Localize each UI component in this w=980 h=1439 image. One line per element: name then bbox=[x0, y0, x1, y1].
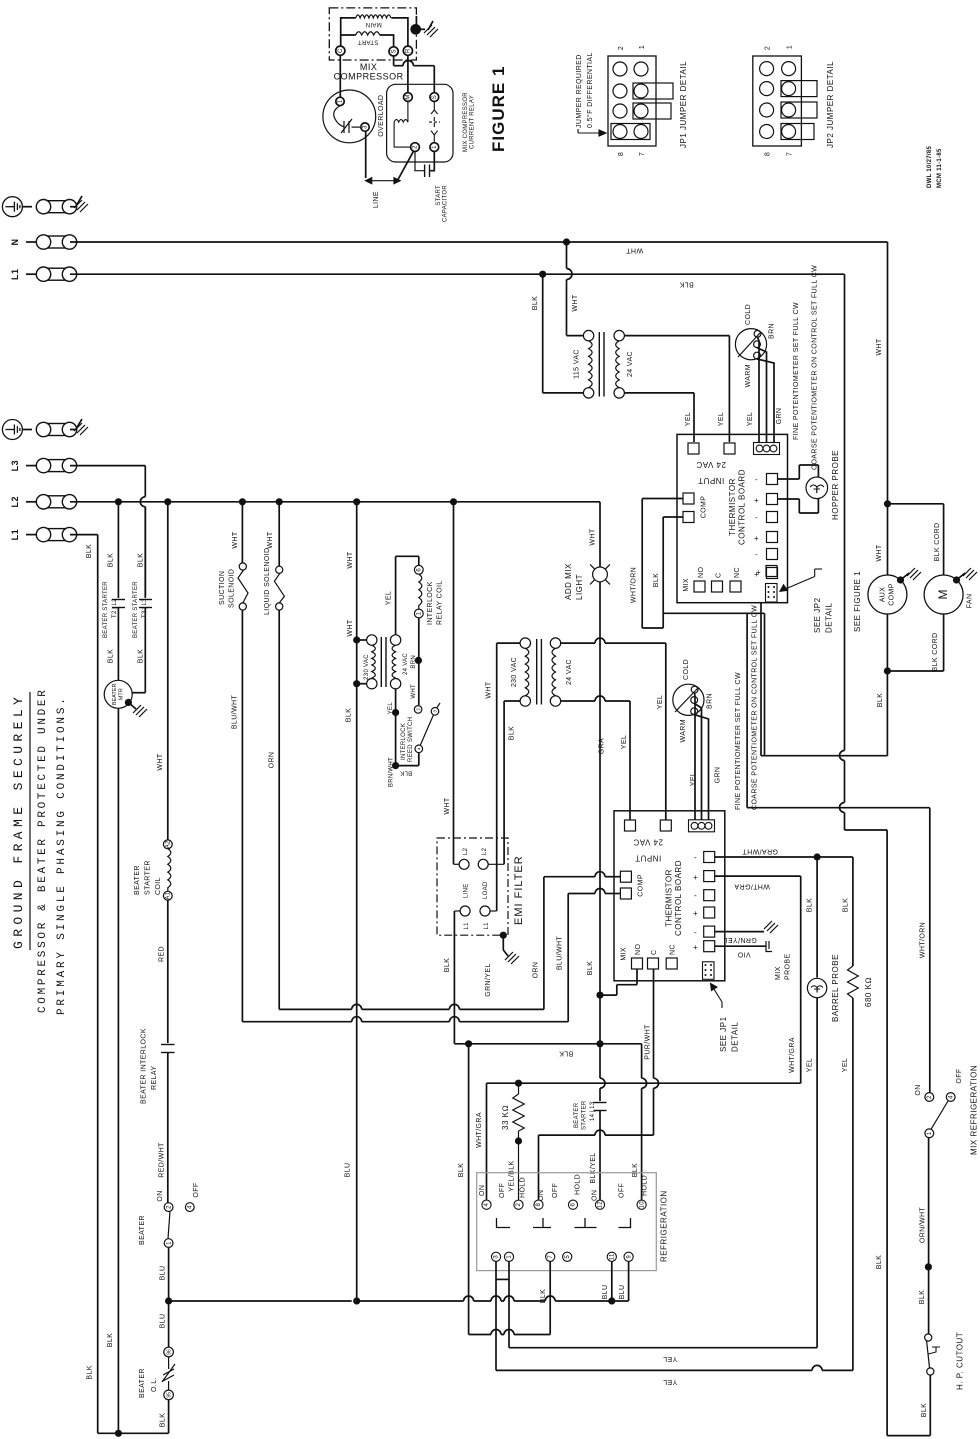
svg-text:INTERLOCK: INTERLOCK bbox=[401, 723, 407, 760]
svg-text:START: START bbox=[358, 39, 379, 45]
svg-text:SEE FIGURE 1: SEE FIGURE 1 bbox=[853, 571, 862, 632]
svg-text:MIX: MIX bbox=[360, 62, 378, 72]
wire WHT/ORN from board1 comp pin1 bbox=[642, 499, 683, 629]
svg-text:GRN: GRN bbox=[715, 767, 722, 784]
lamp ADD MIX LIGHT bbox=[590, 564, 610, 584]
svg-text:COMP: COMP bbox=[638, 874, 645, 897]
svg-text:BLK: BLK bbox=[107, 1333, 114, 1347]
node BLK bus junctions bbox=[465, 992, 604, 1048]
wire T3 primary bottom to EMI load bbox=[504, 701, 520, 864]
svg-text:NO: NO bbox=[698, 567, 705, 578]
svg-text:BLK: BLK bbox=[843, 898, 850, 912]
contact BEATER STARTER T3 L3 bbox=[139, 600, 152, 608]
LINE double arrow bbox=[366, 178, 400, 184]
svg-text:1: 1 bbox=[639, 45, 646, 49]
wire BLK to 680K resistor bbox=[852, 857, 854, 966]
svg-text:BLK: BLK bbox=[444, 958, 451, 972]
EMI L1 load terminal bbox=[480, 906, 497, 916]
terminal R bbox=[403, 46, 412, 55]
refrigeration switch block outline bbox=[477, 1173, 657, 1271]
svg-text:9: 9 bbox=[626, 1255, 632, 1259]
svg-text:HOPPER PROBE: HOPPER PROBE bbox=[831, 450, 840, 520]
svg-text:+: + bbox=[693, 909, 698, 918]
svg-text:2: 2 bbox=[927, 1095, 933, 1099]
revision text DWL MCM bbox=[927, 145, 943, 188]
relay enclosure rounded box bbox=[387, 84, 453, 162]
EMI LINE LOAD labels bbox=[464, 881, 490, 899]
svg-text:-: - bbox=[755, 475, 758, 484]
svg-text:BLK: BLK bbox=[876, 1255, 883, 1269]
svg-text:ON: ON bbox=[592, 1190, 599, 1201]
svg-text:BLK: BLK bbox=[807, 898, 814, 912]
svg-text:1: 1 bbox=[927, 1131, 933, 1135]
svg-text:11: 11 bbox=[610, 1253, 616, 1260]
svg-text:THERMISTOR: THERMISTOR bbox=[665, 869, 674, 927]
fuse L1 second bbox=[26, 527, 77, 541]
label SEE JP2 DETAIL bbox=[813, 597, 834, 633]
label BEATER INTERLOCK RELAY bbox=[141, 1028, 159, 1104]
svg-text:SUCTION: SUCTION bbox=[219, 571, 226, 605]
relay terminal 2 bbox=[411, 143, 420, 152]
svg-text:BLK: BLK bbox=[138, 649, 145, 663]
board1 right pins with polarity labels bbox=[754, 474, 778, 580]
wire T3 primary top to EMI load bbox=[497, 643, 520, 911]
svg-text:WHT: WHT bbox=[347, 619, 354, 636]
svg-text:JP1 JUMPER DETAIL: JP1 JUMPER DETAIL bbox=[679, 61, 688, 148]
wires pot2 to board2 connector bbox=[694, 693, 708, 820]
svg-text:REED SWITCH: REED SWITCH bbox=[408, 717, 414, 762]
svg-text:OFF: OFF bbox=[499, 1183, 506, 1198]
svg-text:YEL: YEL bbox=[386, 591, 393, 605]
node BRN/WHT junction bbox=[392, 762, 399, 769]
board1 pot connector 3 circles bbox=[754, 443, 780, 455]
svg-text:INPUT: INPUT bbox=[698, 476, 725, 485]
svg-text:L1: L1 bbox=[10, 529, 20, 541]
svg-text:BLK CORD: BLK CORD bbox=[934, 523, 941, 562]
svg-text:BLK: BLK bbox=[679, 281, 693, 288]
svg-text:AUX: AUX bbox=[880, 587, 887, 603]
svg-text:BLK: BLK bbox=[108, 649, 115, 663]
svg-text:-: - bbox=[755, 550, 758, 559]
svg-text:WHT: WHT bbox=[347, 551, 354, 568]
svg-text:BRN: BRN bbox=[769, 323, 776, 339]
svg-text:1: 1 bbox=[507, 1255, 513, 1259]
coil BEATER STARTER COIL bbox=[163, 840, 172, 900]
svg-text:L1: L1 bbox=[10, 268, 20, 280]
chassis ground at entry 2 bbox=[74, 419, 88, 435]
svg-text:BLK: BLK bbox=[653, 573, 660, 587]
label ADD MIX LIGHT bbox=[564, 563, 584, 600]
wire N line bbox=[70, 241, 888, 243]
svg-text:BLK: BLK bbox=[87, 1365, 94, 1379]
svg-text:JP2 JUMPER DETAIL: JP2 JUMPER DETAIL bbox=[826, 61, 835, 148]
svg-text:4: 4 bbox=[188, 1205, 194, 1209]
wire PUR/WHT link to pin8 bbox=[539, 1130, 654, 1199]
label MIX COMPRESSOR CURRENT RELAY bbox=[463, 92, 476, 152]
contact BEATER STARTER 14 13 bbox=[594, 1044, 607, 1200]
arrow SEE JP2 DETAIL bbox=[780, 569, 822, 591]
transformer T1 core bbox=[599, 332, 604, 397]
wire BLU/WHT suction down bbox=[241, 610, 243, 1022]
board1 text 24 VAC INPUT (rot180) bbox=[696, 460, 726, 485]
svg-text:WHT: WHT bbox=[876, 544, 883, 561]
EMI L1 labels bbox=[464, 922, 490, 930]
underline for GROUND FRAME SECURELY bbox=[29, 692, 31, 950]
wire pin7 BLK down bbox=[549, 1261, 551, 1334]
wire EMI L1 line down to BLK bus bbox=[453, 911, 455, 1044]
board2 NO C NC pins bbox=[632, 944, 678, 969]
svg-text:-: - bbox=[694, 853, 697, 862]
potentiometer mix WARM/COLD bbox=[673, 684, 704, 715]
svg-text:BLK: BLK bbox=[919, 1290, 926, 1304]
svg-text:BLK: BLK bbox=[160, 1413, 167, 1427]
label START CAPACITOR bbox=[436, 185, 449, 223]
board1 24VAC input pin 1 bbox=[688, 443, 699, 454]
svg-text:BLU: BLU bbox=[602, 1285, 609, 1300]
svg-text:230 VAC: 230 VAC bbox=[511, 657, 518, 687]
label BEATER O.L. bbox=[139, 1368, 158, 1398]
motor M fan bbox=[924, 575, 963, 614]
svg-text:MTR: MTR bbox=[119, 688, 125, 700]
wire L1 line bbox=[70, 273, 845, 275]
overload terminal 3 bbox=[361, 123, 369, 131]
svg-text:10: 10 bbox=[639, 1201, 645, 1209]
wire YEL secondary bottom to board1 pin1 bbox=[624, 393, 694, 442]
svg-text:M: M bbox=[406, 94, 412, 99]
svg-text:BRN: BRN bbox=[411, 655, 417, 669]
wire YEL1 horizontal bbox=[509, 1347, 817, 1349]
svg-text:MIX COMPRESSOR: MIX COMPRESSOR bbox=[463, 92, 469, 152]
switch MIX REFRIGERATION bbox=[925, 1093, 955, 1138]
svg-text:STARTER: STARTER bbox=[145, 860, 152, 895]
svg-text:MAIN: MAIN bbox=[365, 21, 381, 27]
EMI filter dash-dot enclosure bbox=[437, 838, 508, 935]
svg-text:WHT: WHT bbox=[572, 294, 579, 311]
refrigeration position labels ON OFF HOLD row1 bbox=[479, 1177, 527, 1198]
potentiometer hopper WARM/COLD bbox=[735, 329, 766, 360]
transformer T2 core bbox=[381, 637, 386, 687]
svg-text:-: - bbox=[694, 928, 697, 937]
svg-text:6: 6 bbox=[417, 568, 423, 572]
wire BLK bus right drop to pin10 bbox=[642, 1044, 647, 1200]
svg-text:COLD: COLD bbox=[745, 304, 752, 325]
wire RED/WHT to beater switch bbox=[167, 1053, 169, 1203]
svg-text:THERMISTOR: THERMISTOR bbox=[728, 478, 737, 536]
svg-text:WHT: WHT bbox=[486, 681, 493, 698]
svg-text:96: 96 bbox=[166, 1349, 172, 1355]
svg-text:BEATER STARTER: BEATER STARTER bbox=[103, 581, 109, 638]
svg-text:WHT: WHT bbox=[411, 684, 417, 699]
aux comp ground bbox=[897, 568, 921, 584]
svg-text:BLK: BLK bbox=[877, 693, 884, 707]
svg-text:BLU: BLU bbox=[619, 1285, 626, 1300]
svg-text:2: 2 bbox=[413, 145, 419, 149]
wire bottom left horizontal bbox=[98, 1432, 169, 1434]
svg-text:EMI FILTER: EMI FILTER bbox=[513, 855, 525, 925]
svg-text:230 VAC: 230 VAC bbox=[364, 654, 370, 680]
wire YEL T3 secondary top to board2 (hop over lamp wire) bbox=[561, 638, 666, 820]
svg-text:14 | 13: 14 | 13 bbox=[590, 1101, 596, 1121]
svg-text:HOLD: HOLD bbox=[575, 1174, 582, 1195]
transformer T1 115VAC primary bbox=[583, 330, 593, 398]
node YEL junction bbox=[392, 709, 399, 716]
board1 NO C NC pins bbox=[694, 567, 741, 592]
wire main coil right to R bbox=[391, 18, 408, 47]
svg-text:YEL/BLK: YEL/BLK bbox=[509, 1160, 516, 1191]
wire reed 4 to BRN/WHT line bbox=[396, 753, 419, 766]
svg-text:ADD MIX: ADD MIX bbox=[564, 563, 573, 600]
transformer T2 230VAC primary bbox=[367, 635, 377, 689]
JP1 jumper row2 bbox=[633, 83, 673, 99]
svg-text:A1: A1 bbox=[166, 891, 172, 899]
svg-text:YEL: YEL bbox=[621, 735, 628, 749]
svg-text:BLU/WHT: BLU/WHT bbox=[557, 936, 564, 971]
svg-text:PROBE: PROBE bbox=[785, 953, 792, 980]
svg-text:RED/WHT: RED/WHT bbox=[159, 1142, 166, 1178]
svg-text:ORN/WHT: ORN/WHT bbox=[920, 1207, 927, 1244]
wire beater circuit column from L2 bbox=[167, 502, 169, 840]
wire HP cutout up to mix refrigeration bbox=[928, 1138, 930, 1335]
svg-text:YEL: YEL bbox=[807, 1058, 814, 1072]
label BEATER STARTER (14 13) bbox=[574, 1100, 596, 1130]
svg-text:LINE: LINE bbox=[373, 191, 380, 208]
svg-text:33 KΩ: 33 KΩ bbox=[501, 1105, 510, 1130]
resistor 33 K ohm bbox=[513, 1083, 524, 1199]
svg-text:START: START bbox=[436, 185, 442, 206]
JP1 pin labels 2 1 8 7 bbox=[618, 45, 646, 156]
arrow jumper required to JP1 bbox=[578, 129, 606, 136]
svg-text:BEATER STARTER: BEATER STARTER bbox=[133, 581, 139, 638]
wire BLU/WHT horizontal to board2 comp2 bbox=[242, 889, 620, 1022]
svg-text:YEL: YEL bbox=[388, 702, 394, 715]
svg-text:OFF: OFF bbox=[552, 1183, 559, 1198]
wire GRA/WHT from board2 pin1 to probes bbox=[715, 856, 853, 858]
svg-text:MIX: MIX bbox=[683, 578, 690, 592]
relay switch contact bbox=[429, 102, 440, 143]
board1 JP2 connector bbox=[766, 584, 778, 603]
solenoid SUCTION bbox=[238, 563, 248, 610]
transformer T2 24V secondary bbox=[390, 635, 400, 689]
svg-text:PRIMARY SINGLE PHASING CONDITI: PRIMARY SINGLE PHASING CONDITIONS. bbox=[56, 695, 68, 1015]
svg-text:RED: RED bbox=[159, 946, 166, 962]
wire YEL secondary top to board1 pin2 bbox=[624, 336, 729, 442]
wire BLK left rail bbox=[97, 535, 99, 1434]
svg-text:2: 2 bbox=[516, 1203, 522, 1207]
JP2 jumper row3 bbox=[781, 102, 817, 118]
node BLU junction bbox=[165, 1297, 172, 1304]
svg-text:ON: ON bbox=[538, 1190, 545, 1201]
JP2 pin circles bbox=[760, 62, 796, 139]
contact BEATER O.L. 96 bbox=[164, 1347, 174, 1357]
contact BEATER INTERLOCK RELAY bbox=[161, 1045, 175, 1053]
node bottom junction bbox=[115, 1430, 122, 1437]
wire beater motor down to bottom bbox=[117, 708, 119, 1433]
svg-text:H. P. CUTOUT: H. P. CUTOUT bbox=[956, 1332, 965, 1390]
start capacitor bbox=[415, 152, 430, 178]
svg-text:L2: L2 bbox=[482, 847, 488, 855]
svg-text:24 VAC: 24 VAC bbox=[627, 351, 634, 377]
switch INTERLOCK REED bbox=[414, 703, 440, 753]
svg-text:SOLENOID: SOLENOID bbox=[229, 569, 236, 608]
svg-text:VIO: VIO bbox=[737, 951, 750, 958]
coil MAIN winding bbox=[356, 15, 391, 18]
wire BLK down from bus to cross link bbox=[468, 1044, 470, 1335]
fuse L1 bbox=[26, 267, 77, 281]
svg-text:7: 7 bbox=[548, 1255, 554, 1259]
node rail to fan motor junction bbox=[884, 500, 891, 507]
svg-text:BEATER: BEATER bbox=[139, 1215, 146, 1245]
relay terminal 1 bbox=[430, 143, 439, 152]
svg-text:BLK: BLK bbox=[559, 1050, 573, 1057]
label BEATER STARTER COIL bbox=[134, 860, 162, 895]
svg-text:BLK: BLK bbox=[346, 708, 353, 722]
svg-text:FINE POTENTIOMETER SET FULL CW: FINE POTENTIOMETER SET FULL CW bbox=[793, 302, 800, 440]
svg-text:L3: L3 bbox=[10, 460, 20, 472]
node junction on mix refrigeration line bbox=[925, 1263, 932, 1270]
svg-text:M: M bbox=[936, 590, 950, 600]
svg-text:BLK/YEL: BLK/YEL bbox=[590, 1152, 597, 1183]
svg-text:STARTER: STARTER bbox=[582, 1100, 588, 1130]
svg-text:L1: L1 bbox=[464, 922, 470, 930]
svg-text:WHT: WHT bbox=[157, 753, 164, 770]
svg-text:REFRIGERATION: REFRIGERATION bbox=[660, 1190, 669, 1262]
board2 COMP pins bbox=[620, 871, 631, 899]
EMI L1 line terminal bbox=[454, 906, 470, 916]
svg-text:-: - bbox=[694, 891, 697, 900]
JP2 jumper row2 bbox=[781, 81, 817, 97]
contact BEATER STARTER T2 L2 bbox=[112, 600, 125, 608]
svg-text:YEL: YEL bbox=[657, 695, 664, 709]
svg-text:BEATER: BEATER bbox=[134, 865, 141, 895]
svg-text:ON: ON bbox=[479, 1185, 486, 1196]
svg-text:4: 4 bbox=[948, 1095, 954, 1099]
svg-text:PUR/WHT: PUR/WHT bbox=[645, 1024, 652, 1060]
wire GRA lamp down long run bbox=[599, 582, 601, 1045]
svg-text:YEL: YEL bbox=[718, 412, 725, 426]
svg-text:+: + bbox=[754, 496, 759, 505]
svg-text:LINE: LINE bbox=[464, 883, 470, 898]
wire BLK cross link to pin7 bbox=[469, 1330, 551, 1335]
svg-text:T2 | L2: T2 | L2 bbox=[112, 598, 118, 618]
svg-text:NO: NO bbox=[635, 944, 642, 955]
svg-text:1: 1 bbox=[432, 145, 438, 149]
svg-text:C: C bbox=[651, 950, 658, 955]
wire T3 to beater motor side bbox=[133, 608, 146, 693]
svg-text:2: 2 bbox=[166, 1205, 172, 1209]
svg-text:R: R bbox=[406, 48, 412, 53]
svg-text:BARREL PROBE: BARREL PROBE bbox=[831, 954, 840, 1022]
wire YEL 680K down bbox=[852, 998, 854, 1370]
svg-text:BLK CORD: BLK CORD bbox=[932, 633, 939, 672]
svg-text:WHT/GRA: WHT/GRA bbox=[789, 1037, 796, 1073]
svg-text:COLD: COLD bbox=[683, 659, 690, 680]
EMI ground GRN/YEL bbox=[500, 932, 519, 964]
svg-text:WARM: WARM bbox=[745, 364, 752, 388]
svg-text:8: 8 bbox=[618, 152, 625, 156]
svg-text:WHT/ORN: WHT/ORN bbox=[920, 922, 927, 958]
svg-text:S: S bbox=[391, 49, 397, 53]
wire WHT from N to 115VAC primary bbox=[567, 242, 584, 336]
svg-text:+: + bbox=[693, 873, 698, 882]
svg-text:WHT: WHT bbox=[444, 797, 451, 814]
svg-text:DWL 10/27/85: DWL 10/27/85 bbox=[927, 145, 933, 188]
svg-text:WHT/GRA: WHT/GRA bbox=[734, 883, 770, 890]
svg-text:1: 1 bbox=[417, 611, 423, 615]
svg-text:CONTROL BOARD: CONTROL BOARD bbox=[674, 860, 683, 936]
svg-text:JUMPER REQUIRED: JUMPER REQUIRED bbox=[576, 54, 583, 128]
svg-text:24 VAC: 24 VAC bbox=[566, 659, 573, 685]
svg-text:FINE POTENTIOMETER SET FULL CW: FINE POTENTIOMETER SET FULL CW bbox=[735, 672, 742, 810]
svg-text:12: 12 bbox=[598, 1201, 604, 1209]
wire pin1 down to YEL1 bbox=[508, 1279, 510, 1347]
coil INTERLOCK RELAY COIL bbox=[414, 565, 423, 618]
svg-text:INPUT: INPUT bbox=[635, 854, 662, 863]
svg-text:-: - bbox=[755, 513, 758, 522]
wire BRN coil to reed switch bbox=[418, 618, 420, 705]
refrigeration position labels ON OFF HOLD row2 bbox=[538, 1174, 582, 1201]
svg-text:C: C bbox=[716, 573, 723, 578]
svg-text:7: 7 bbox=[639, 152, 646, 156]
JP1 jumper bottom row bbox=[611, 124, 650, 140]
svg-text:7: 7 bbox=[787, 152, 794, 156]
board1 plus pin bbox=[756, 566, 777, 578]
wire ORN liquid down bbox=[278, 610, 280, 1009]
svg-text:FAN: FAN bbox=[967, 594, 974, 609]
svg-text:HOLD: HOLD bbox=[642, 1175, 649, 1196]
EMI L2 labels bbox=[463, 847, 488, 855]
wire YEL barrel probe down bbox=[816, 998, 818, 1348]
svg-text:OVERLOAD: OVERLOAD bbox=[378, 95, 385, 137]
solenoid LIQUID wire from L2 bbox=[278, 502, 280, 566]
svg-text:5: 5 bbox=[565, 1255, 571, 1259]
wire WHT rail N down right side bbox=[887, 242, 889, 575]
refrigeration position labels ON OFF HOLD row3 bbox=[592, 1175, 649, 1201]
svg-text:BLK: BLK bbox=[400, 770, 412, 776]
contact BEATER O.L. 95 bbox=[164, 1390, 174, 1400]
svg-text:YEL: YEL bbox=[747, 412, 754, 426]
svg-text:LIGHT: LIGHT bbox=[575, 574, 584, 600]
svg-text:YEL: YEL bbox=[690, 772, 697, 786]
wire WHT from L2 to EMI line side bbox=[453, 502, 455, 865]
wire GRN/YEL board2 pin5 to chassis bbox=[715, 921, 778, 933]
board2 label THERMISTOR CONTROL BOARD bbox=[665, 860, 684, 936]
wire PUR/WHT from board2 C pin bbox=[654, 969, 659, 1135]
svg-text:24 VAC: 24 VAC bbox=[633, 838, 663, 847]
transformer T3 24V secondary bbox=[550, 638, 560, 706]
svg-text:BLK: BLK bbox=[86, 544, 93, 558]
svg-text:1: 1 bbox=[787, 45, 794, 49]
svg-text:MIX: MIX bbox=[621, 947, 628, 961]
wires pot1 to board connector bbox=[757, 337, 774, 442]
svg-text:BLU: BLU bbox=[160, 1314, 167, 1329]
wire C to overload terminal 1 bbox=[339, 55, 341, 97]
svg-text:WHT: WHT bbox=[267, 531, 274, 548]
svg-text:4: 4 bbox=[484, 1203, 490, 1207]
svg-text:NC: NC bbox=[670, 944, 677, 955]
svg-text:OFF: OFF bbox=[193, 1182, 200, 1197]
svg-text:BLU/WHT: BLU/WHT bbox=[232, 695, 239, 730]
svg-text:WHT/GRA: WHT/GRA bbox=[476, 1112, 483, 1148]
svg-text:LOAD: LOAD bbox=[483, 881, 489, 899]
svg-text:LIQUID SOLENOID: LIQUID SOLENOID bbox=[264, 548, 271, 615]
label INTERLOCK REED SWITCH bbox=[401, 717, 414, 762]
relay coil bbox=[394, 102, 411, 148]
wire YEL2 horizontal bbox=[496, 1365, 853, 1370]
svg-text:OFF: OFF bbox=[619, 1183, 626, 1198]
svg-text:ORN: ORN bbox=[269, 752, 276, 769]
svg-text:8: 8 bbox=[765, 152, 772, 156]
refrigeration switch bars bbox=[497, 1218, 631, 1228]
